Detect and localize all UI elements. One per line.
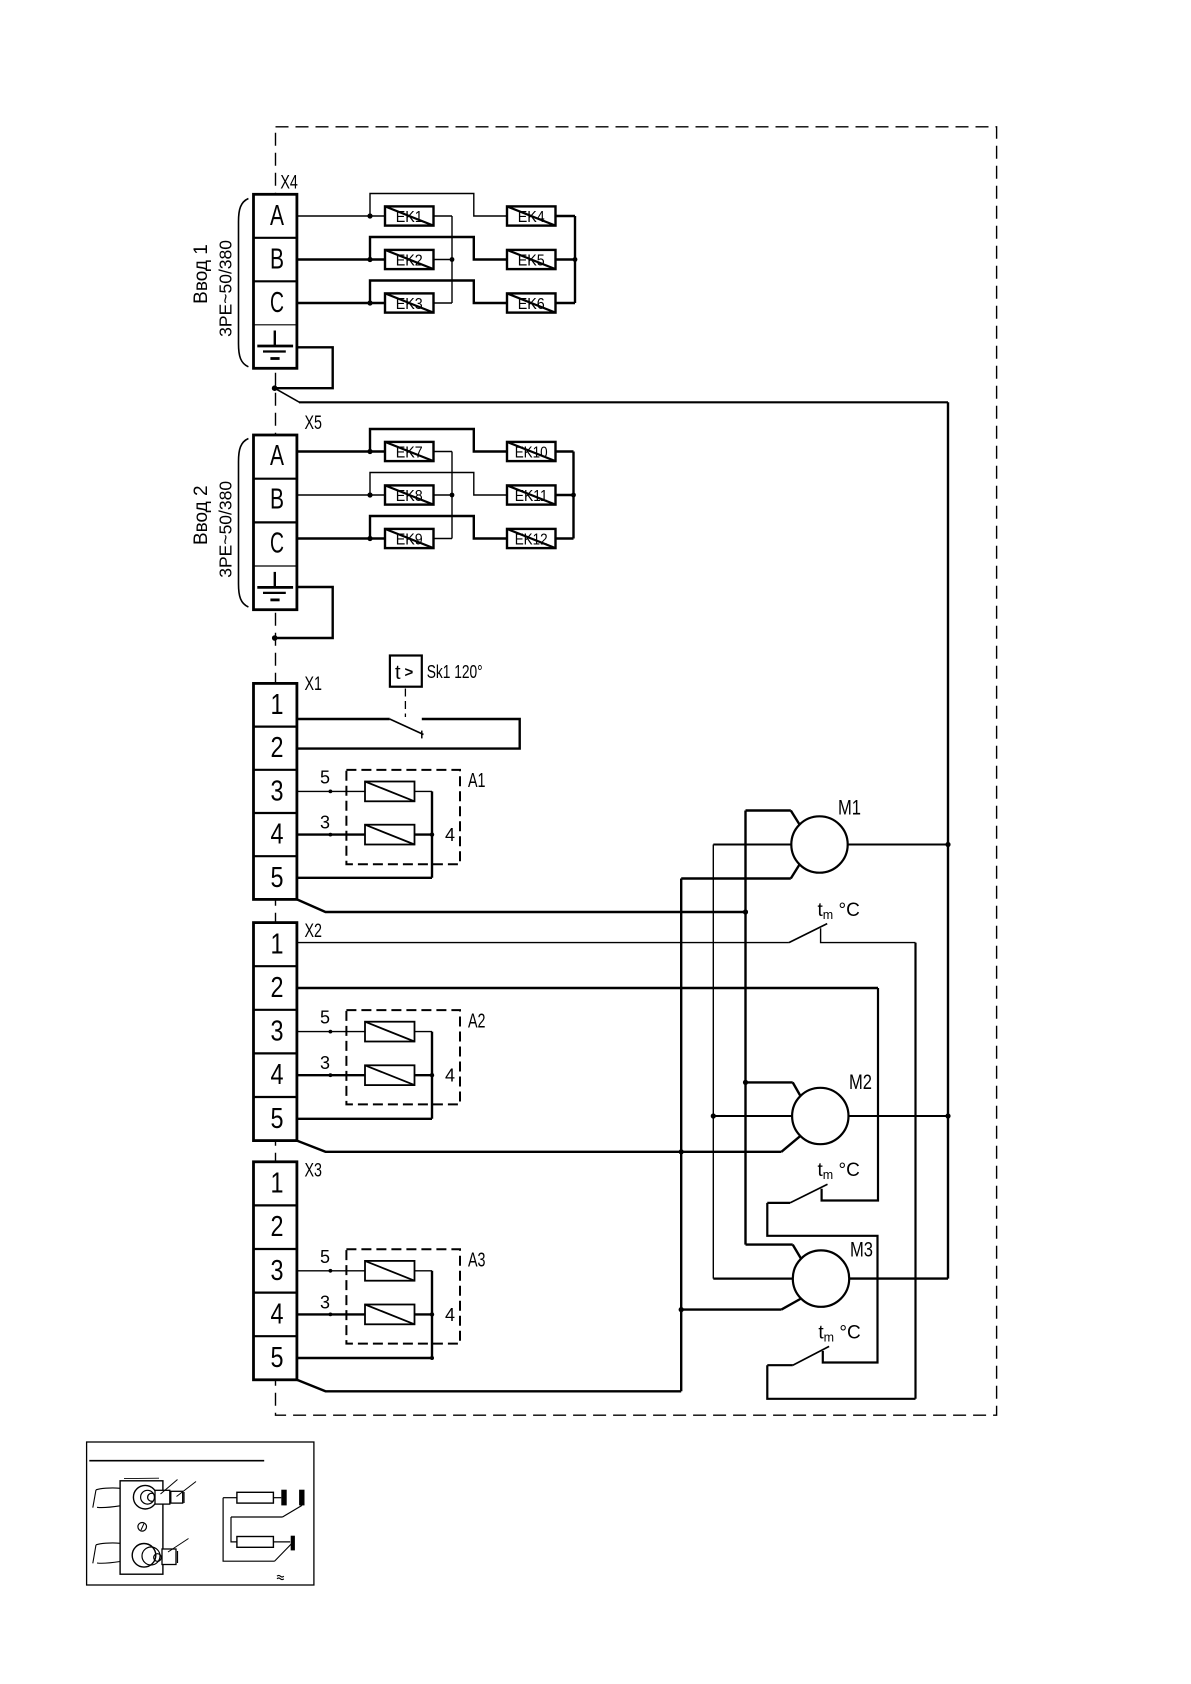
svg-text:3: 3: [320, 813, 330, 833]
node X5 phase A junction: [367, 449, 372, 454]
M1 thermal contact blade: [789, 924, 827, 943]
wire M3 bottom phase horizontal: [681, 1308, 781, 1310]
node star EK1-EK3: [450, 257, 455, 262]
node A3 pin 5: [329, 1269, 333, 1273]
legend device upper boss outer: [133, 1485, 157, 1509]
svg-text:2: 2: [271, 972, 284, 1004]
wire EK9 output to star point: [434, 538, 453, 540]
legend upper cable end: [93, 1490, 96, 1508]
svg-text:2: 2: [271, 1211, 284, 1243]
wire A1 common vertical: [431, 791, 433, 877]
svg-text:5: 5: [271, 862, 284, 894]
wire EK4 output to star point: [556, 215, 576, 217]
resistor A3 lower box: [365, 1305, 415, 1325]
thermal switch Sk1 box: [390, 656, 422, 687]
wire EK8 output to star point: [434, 494, 453, 496]
svg-text:EK1: EK1: [396, 209, 423, 226]
Sk1 contact tick: [421, 731, 423, 739]
legend lower cable end: [93, 1545, 96, 1564]
svg-text:A3: A3: [468, 1250, 486, 1272]
node star EK4-EK6: [573, 257, 578, 262]
heating element EK7 diagonal: [385, 442, 434, 461]
legend box: [87, 1442, 314, 1585]
node A3 common corner: [430, 1356, 434, 1360]
svg-text:EK3: EK3: [396, 296, 423, 313]
node A2 pin 4: [430, 1073, 434, 1077]
resistor A2 upper box: [365, 1022, 415, 1042]
brace X5: [239, 439, 249, 608]
resistor A3 upper diagonal: [365, 1261, 415, 1281]
terminal block X2 divider: [254, 965, 297, 967]
wire A3 lower resistor output: [415, 1313, 433, 1315]
svg-text:Ввод 2: Ввод 2: [191, 485, 212, 545]
svg-text:EK9: EK9: [396, 532, 423, 549]
wire M3 bottom phase diagonal: [781, 1299, 801, 1310]
node A2 pin 3: [329, 1073, 333, 1077]
heating element EK5 diagonal: [507, 250, 556, 269]
wire X3:4 to A3 pin 3: [297, 1313, 365, 1315]
M3 thermal contact blade: [793, 1346, 829, 1365]
wire EK3 output to star point: [434, 302, 453, 304]
wire EK5 output to star point: [556, 258, 576, 260]
terminal block X4 outline: [254, 194, 297, 368]
heating element EK2 box: [385, 250, 434, 269]
wire X3:5 outgoing: [297, 1380, 681, 1392]
wire M2 top phase diagonal: [793, 1082, 801, 1096]
svg-text:t: t: [395, 662, 401, 684]
resistor A1 lower box: [365, 825, 415, 845]
wire M1 top phase diagonal: [791, 811, 800, 825]
ground symbol X4 bar2: [263, 350, 286, 352]
svg-text:C: C: [270, 287, 284, 319]
terminal block X3 divider: [254, 1335, 297, 1337]
module A2 dashed box: [346, 1010, 460, 1104]
wire X1:1 to Sk1 contact: [297, 718, 390, 720]
wire A2 lower resistor output: [415, 1074, 433, 1076]
wire M3 top phase diagonal: [793, 1245, 801, 1259]
resistor A3 upper box: [365, 1261, 415, 1281]
wire EK6 output to star point: [556, 302, 576, 304]
legend contact 2 blade: [275, 1544, 292, 1561]
node X4 phase A junction: [367, 213, 372, 218]
ground symbol X4 bar3: [270, 357, 279, 360]
terminal block X3 divider: [254, 1204, 297, 1206]
motor M2 circle: [792, 1088, 848, 1144]
heating element EK2 diagonal: [385, 250, 434, 269]
resistor A1 lower diagonal: [365, 825, 415, 845]
node X2:5 to bottom bus: [679, 1149, 684, 1154]
wire A3 upper resistor output: [415, 1270, 433, 1272]
svg-text:5: 5: [320, 1247, 330, 1267]
svg-text:>: >: [405, 664, 414, 681]
wire M2 to PE bus: [849, 1115, 949, 1117]
svg-text:EK11: EK11: [515, 488, 548, 505]
legend heater 2 right wire: [273, 1541, 290, 1543]
heating element EK7 box: [385, 442, 434, 461]
svg-text:X5: X5: [305, 413, 323, 434]
heating element EK12 box: [507, 529, 556, 548]
wire M2 thermal contact output to X2:2: [822, 988, 878, 1201]
svg-text:3: 3: [320, 1292, 330, 1312]
wire X5 phase C to EK9: [297, 537, 385, 539]
terminal block X1 divider: [254, 855, 297, 857]
svg-text:tm °C: tm °C: [818, 1323, 860, 1345]
terminal block X2 outline: [254, 923, 297, 1141]
heating element EK8 diagonal: [385, 485, 434, 504]
svg-text:1: 1: [271, 928, 284, 960]
wire X5 phase A bypass to right column: [370, 429, 507, 452]
wire X2:5 diagonal into M2: [781, 1136, 800, 1152]
wire X5 ground to PE node: [276, 587, 333, 638]
terminal block X5 divider: [254, 478, 297, 480]
module A3 dashed box: [346, 1249, 460, 1343]
svg-text:3PE~50/380: 3PE~50/380: [216, 240, 236, 337]
terminal block X1 divider: [254, 725, 297, 727]
wire A3 common vertical: [431, 1271, 433, 1358]
wire X2:5 outgoing: [297, 1141, 782, 1152]
svg-text:EK7: EK7: [396, 445, 423, 462]
wire X4 phase B bypass to right column: [370, 237, 507, 260]
node A3 pin 4: [430, 1312, 434, 1316]
wire X4 phase B to EK2: [297, 258, 385, 260]
svg-text:B: B: [270, 484, 284, 516]
terminal block X2 divider: [254, 1009, 297, 1011]
motor M3 circle: [793, 1250, 849, 1306]
wire X5 phase A to EK7: [297, 450, 385, 452]
svg-text:X2: X2: [305, 921, 323, 942]
node X1:5 to top bus: [743, 909, 748, 914]
node X4 phase B junction: [367, 257, 372, 262]
wire A1 upper resistor output: [415, 790, 433, 792]
wire X5 phase B to EK8: [297, 494, 385, 496]
wire A1 common to X1:5: [297, 877, 432, 879]
wire top bus vertical: [744, 811, 746, 1245]
terminal block X1 outline: [254, 683, 297, 899]
legend heater 1 left wire: [223, 1497, 237, 1499]
svg-text:X3: X3: [305, 1160, 323, 1181]
node M1 on PE bus: [945, 842, 950, 847]
svg-text:1: 1: [271, 689, 284, 721]
svg-text:tm °C: tm °C: [818, 1160, 860, 1182]
node PE junction 1: [272, 385, 278, 391]
dashed enclosure frame: [276, 127, 997, 1415]
legend left return wire: [223, 1498, 274, 1562]
Sk1 contact blade: [390, 719, 424, 735]
wire EK1 output to star point: [434, 215, 453, 217]
svg-text:A2: A2: [468, 1010, 486, 1032]
svg-text:A1: A1: [468, 770, 486, 792]
terminal block X2 divider: [254, 1052, 297, 1054]
heating element EK3 box: [385, 293, 434, 312]
legend contact bar 2: [299, 1490, 304, 1506]
heating element EK11 box: [507, 485, 556, 504]
legend device plate: [120, 1481, 163, 1574]
wire X1:5 outgoing: [297, 899, 746, 912]
wire EK7 output to star point: [434, 451, 453, 453]
wire X1:4 to A1 pin 3: [297, 833, 365, 835]
svg-text:B: B: [270, 244, 284, 276]
svg-text:EK2: EK2: [396, 253, 423, 270]
wire M3 thermal contact output: [767, 1203, 877, 1363]
svg-text:1: 1: [271, 1168, 284, 1200]
terminal block X3 divider: [254, 1248, 297, 1250]
node X5 phase C junction: [367, 536, 372, 541]
svg-text:5: 5: [271, 1103, 284, 1135]
terminal block X1 divider: [254, 769, 297, 771]
legend upper leader 2: [177, 1482, 197, 1497]
wire A1 lower resistor output: [415, 833, 433, 835]
terminal block X4 divider: [254, 280, 297, 282]
brace X4: [239, 199, 249, 367]
svg-text:4: 4: [271, 1059, 284, 1091]
ground symbol X5 bar3: [270, 599, 279, 602]
svg-text:EK8: EK8: [396, 488, 423, 505]
svg-text:3: 3: [271, 1255, 284, 1287]
svg-text:4: 4: [445, 825, 455, 845]
wire M1 to PE bus: [848, 844, 948, 846]
node M2 on PE bus: [945, 1113, 950, 1118]
node middle bus M2 branch: [711, 1113, 716, 1118]
legend upper cable bottom line: [97, 1506, 120, 1508]
legend heater 1 right wire: [273, 1497, 281, 1499]
heating element EK11 diagonal: [507, 485, 556, 504]
node A1 pin 3: [329, 833, 333, 837]
svg-text:3: 3: [271, 775, 284, 807]
wire EK11 output to star point: [556, 494, 574, 496]
legend device lower boss mid: [142, 1547, 160, 1565]
legend lower leader: [168, 1539, 189, 1553]
wire X2:4 to A2 pin 3: [297, 1074, 365, 1076]
svg-text:3PE~50/380: 3PE~50/380: [216, 481, 236, 578]
module A1 dashed box: [346, 770, 460, 864]
wire A3 common to X3:5: [297, 1357, 432, 1359]
legend heater 2 box: [237, 1537, 274, 1548]
legend device lower boss core: [154, 1554, 162, 1562]
terminal block X4 divider: [254, 324, 297, 326]
svg-text:3: 3: [271, 1016, 284, 1048]
svg-text:X1: X1: [305, 674, 323, 695]
heating element EK4 box: [507, 206, 556, 225]
legend device upper terminal: [155, 1490, 170, 1504]
legend heater 1 box: [237, 1492, 274, 1503]
legend contact bar 3: [291, 1536, 295, 1551]
legend device plate top edge: [124, 1477, 159, 1479]
legend device upper terminal cap: [183, 1492, 185, 1503]
motor M1 circle: [791, 816, 847, 872]
legend heater 2 left wire: [231, 1517, 237, 1542]
legend device upper terminal tip: [171, 1491, 183, 1503]
svg-text:2: 2: [271, 732, 284, 764]
wire star point EK7-EK9: [451, 452, 453, 539]
wire PE vertical motor bus: [947, 402, 949, 1278]
legend contact bar 1: [281, 1490, 286, 1506]
wire thermal chain bottom link: [767, 1365, 915, 1399]
wire star point EK4-EK6: [574, 216, 576, 303]
wire M3 top phase horizontal: [746, 1243, 793, 1245]
svg-text:X4: X4: [280, 173, 298, 194]
wire M2 thermal contact input: [767, 1202, 790, 1204]
terminal block X3 divider: [254, 1291, 297, 1293]
wire M1 top phase horizontal: [746, 809, 791, 811]
svg-text:A: A: [270, 200, 284, 232]
svg-text:EK4: EK4: [518, 209, 545, 226]
node top bus M2 branch: [743, 1080, 748, 1085]
wire X3:3 to A3 pin 5: [297, 1270, 365, 1272]
resistor A2 lower diagonal: [365, 1065, 415, 1085]
wire M1 bottom phase diagonal: [791, 864, 800, 878]
legend device lower terminal cap: [177, 1551, 179, 1563]
ground symbol X4 bar1: [257, 345, 293, 348]
svg-text:EK6: EK6: [518, 296, 545, 313]
wire X5 phase C bypass to right column: [370, 516, 507, 539]
wire X2:1 to M1 thermal contact: [297, 942, 789, 944]
wire M2 middle phase: [713, 1115, 792, 1117]
legend device middle hole notch: [141, 1524, 144, 1531]
heating element EK9 diagonal: [385, 529, 434, 548]
wire X4 phase C bypass to right column: [370, 281, 507, 304]
wire EK10 output to star point: [556, 450, 574, 452]
heating element EK10 diagonal: [507, 442, 556, 461]
legend device lower boss outer: [132, 1544, 156, 1568]
svg-text:C: C: [270, 527, 284, 559]
legend device upper boss core: [148, 1493, 153, 1501]
Sk1 dashed actuator link: [404, 689, 406, 718]
heating element EK12 diagonal: [507, 529, 556, 548]
wire A2 upper resistor output: [415, 1031, 433, 1033]
wire M2 top phase horizontal: [746, 1081, 793, 1083]
wire X4 phase A bypass to right column: [370, 194, 507, 217]
node star EK10-EK12: [571, 493, 576, 498]
wire EK12 output to star point: [556, 537, 574, 539]
heating element EK1 box: [385, 206, 434, 225]
svg-text:M1: M1: [838, 797, 861, 820]
wire M1 bottom phase horizontal: [681, 877, 791, 879]
heating element EK6 diagonal: [507, 293, 556, 312]
resistor A2 lower box: [365, 1065, 415, 1085]
svg-text:3: 3: [320, 1053, 330, 1073]
terminal block X3 outline: [254, 1162, 297, 1380]
terminal block X2 divider: [254, 1096, 297, 1098]
wire star point EK1-EK3: [451, 216, 453, 303]
heating element EK4 diagonal: [507, 206, 556, 225]
heating element EK3 diagonal: [385, 293, 434, 312]
svg-text:EK5: EK5: [518, 253, 545, 270]
ground symbol X5 bar2: [263, 592, 286, 594]
svg-text:M3: M3: [850, 1239, 873, 1262]
legend upper cable top line: [96, 1488, 120, 1490]
terminal block X5 divider: [254, 565, 297, 567]
node A3 pin 3: [329, 1313, 333, 1317]
svg-text:4: 4: [445, 1305, 455, 1325]
svg-text:4: 4: [271, 819, 284, 851]
M1 thermal contact fixed terminal and output: [821, 928, 916, 942]
svg-text:5: 5: [320, 1008, 330, 1028]
svg-text:5: 5: [271, 1342, 284, 1374]
node A1 pin 5: [329, 790, 333, 794]
wire X4 phase C to EK3: [297, 302, 385, 304]
node A1 pin 4: [430, 832, 434, 836]
ground symbol X4 stem: [274, 331, 276, 347]
node PE junction 2: [272, 635, 278, 641]
svg-text:tm °C: tm °C: [818, 900, 860, 922]
legend device lower terminal: [162, 1549, 176, 1565]
wire X1:3 to A1 pin 5: [297, 790, 365, 792]
wire middle bus vertical: [712, 845, 714, 1279]
node star EK7-EK9: [450, 493, 455, 498]
wire thermal chain right vertical: [914, 943, 916, 1399]
svg-text:Sk1 120°: Sk1 120°: [427, 662, 483, 682]
heating element EK9 box: [385, 529, 434, 548]
legend lower cable top line: [96, 1543, 120, 1545]
wire M3 thermal contact input: [767, 1364, 793, 1366]
legend title underline: [89, 1460, 264, 1462]
svg-text:Ввод 1: Ввод 1: [191, 244, 212, 304]
resistor A1 upper diagonal: [365, 782, 415, 802]
legend approx mark: [277, 1575, 284, 1579]
node X5 phase B junction: [367, 492, 372, 497]
wire X5 phase B bypass to right column: [370, 473, 507, 496]
heating element EK5 box: [507, 250, 556, 269]
svg-text:M2: M2: [849, 1071, 872, 1094]
ground symbol X5 bar1: [257, 586, 293, 589]
wire X4 ground to PE node: [276, 347, 333, 388]
legend upper leader 1: [161, 1480, 178, 1495]
wire X4 phase A to EK1: [297, 215, 385, 217]
heating element EK1 diagonal: [385, 206, 434, 225]
resistor A1 upper box: [365, 782, 415, 802]
resistor A3 lower diagonal: [365, 1305, 415, 1325]
svg-text:EK12: EK12: [515, 532, 548, 549]
terminal block X5 divider: [254, 521, 297, 523]
wire M3 middle phase: [713, 1277, 793, 1279]
svg-text:4: 4: [445, 1066, 455, 1086]
heating element EK6 box: [507, 293, 556, 312]
wire PE horizontal to right side: [299, 401, 948, 403]
heating element EK10 box: [507, 442, 556, 461]
svg-text:A: A: [270, 440, 284, 472]
node bottom bus M3 branch: [679, 1307, 684, 1312]
wire M3 to PE bus: [849, 1277, 948, 1279]
legend lower cable bottom line: [97, 1562, 120, 1564]
wire Sk1 contact return to X1:2: [297, 719, 520, 749]
legend middle wire: [231, 1516, 283, 1518]
node X4 phase C junction: [367, 300, 372, 305]
terminal block X1 divider: [254, 812, 297, 814]
node A2 pin 5: [329, 1030, 333, 1034]
wire X2:3 to A2 pin 5: [297, 1031, 365, 1033]
legend device middle hole: [138, 1523, 147, 1532]
svg-text:4: 4: [271, 1298, 284, 1330]
heating element EK8 box: [385, 485, 434, 504]
terminal block X5 outline: [254, 435, 297, 610]
wire EK2 output to star point: [434, 259, 453, 261]
wire X2:2 to thermal chain: [297, 987, 878, 990]
wire A2 common vertical: [431, 1032, 433, 1119]
wire A2 common to X2:5: [297, 1118, 432, 1120]
legend device upper boss inner: [141, 1490, 155, 1504]
ground symbol X5 stem: [274, 572, 276, 588]
svg-text:5: 5: [320, 767, 330, 787]
wire star point EK10-EK12: [572, 452, 574, 539]
wire M1 middle phase: [713, 844, 791, 846]
wire PE diagonal from node: [275, 388, 300, 402]
terminal block X4 divider: [254, 237, 297, 239]
svg-text:EK10: EK10: [515, 445, 548, 462]
wire bottom bus vertical: [680, 879, 682, 1392]
M2 thermal contact blade: [790, 1184, 828, 1203]
resistor A2 upper diagonal: [365, 1022, 415, 1042]
legend contact 1 blade: [283, 1505, 303, 1517]
